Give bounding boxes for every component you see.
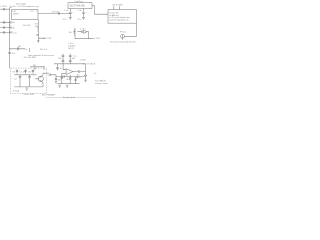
svg-text:L·IN·R: L·IN·R [0, 6, 7, 8]
svg-text:1 uF +: 1 uF + [80, 29, 87, 31]
svg-text:ELECTRET: ELECTRET [24, 94, 36, 96]
svg-text:1 uF: 1 uF [78, 10, 83, 12]
svg-text:1uF 63v: 1uF 63v [51, 11, 59, 13]
svg-text:+ 2u2 16v MKT: + 2u2 16v MKT [22, 57, 37, 59]
svg-text:1 uF: 1 uF [64, 10, 69, 12]
svg-text:IP bal: IP bal [120, 31, 126, 33]
svg-text:x 100k: x 100k [80, 60, 87, 62]
svg-text:GND: GND [118, 5, 123, 7]
svg-text:R6 C5: R6 C5 [68, 48, 75, 50]
svg-text:for tape deck: for tape deck [63, 96, 76, 99]
svg-text:For Non-Detachable Version: For Non-Detachable Version [110, 41, 137, 44]
svg-text:C1 47k: C1 47k [20, 71, 28, 73]
svg-text:0.5mA: 0.5mA [13, 90, 20, 93]
svg-text:R OUT: R OUT [45, 38, 52, 40]
svg-text:Rev 1.0: Rev 1.0 [40, 49, 48, 51]
svg-text:1035N: 1035N [13, 13, 20, 15]
svg-text:47u 6k8: 47u 6k8 [23, 25, 31, 27]
svg-text:L OUT: L OUT [94, 38, 101, 40]
svg-text:with 6V regulation ok: with 6V regulation ok [109, 19, 129, 22]
svg-text:8Ω DYNA MIC: 8Ω DYNA MIC [70, 5, 86, 8]
svg-text:2x 47n + 2x 100n polyester cap: 2x 47n + 2x 100n polyester cap [10, 5, 40, 8]
svg-text:MIC PREAMP: MIC PREAMP [42, 94, 56, 97]
svg-text:of amp / mixer: of amp / mixer [95, 82, 108, 85]
svg-text:Cap Reg: Cap Reg [74, 1, 83, 3]
svg-text:TO DECK: TO DECK [86, 63, 96, 65]
